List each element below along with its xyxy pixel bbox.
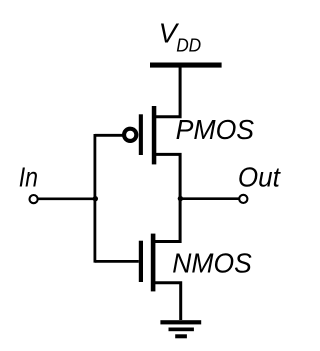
PMOS gate bubble — [124, 129, 136, 141]
wire Out junction to terminal — [180, 197, 239, 200]
node Out junction — [178, 196, 183, 201]
NMOS gate bar — [139, 241, 143, 282]
wire NMOS drain up to Out node — [154, 198, 180, 242]
PMOS gate bar — [139, 114, 143, 155]
PMOS channel bar — [152, 106, 157, 164]
svg-text:DD: DD — [176, 36, 201, 56]
wire PMOS gate to bus — [95, 134, 125, 137]
Out terminal circle — [239, 195, 247, 203]
node In junction — [93, 196, 98, 201]
svg-text:PMOS: PMOS — [176, 114, 255, 145]
svg-text:NMOS: NMOS — [172, 247, 252, 278]
VDD power rail bar — [150, 63, 222, 68]
wire NMOS gate to bus — [95, 260, 139, 263]
label VDD — [159, 18, 202, 56]
NMOS channel bar — [151, 234, 156, 292]
wire In terminal to bus — [38, 197, 96, 200]
wire PMOS source down to Out node — [154, 154, 180, 199]
wire NMOS source to ground — [154, 283, 181, 320]
ground — [160, 320, 201, 338]
In terminal circle — [29, 195, 37, 203]
svg-text:In: In — [19, 160, 38, 192]
svg-text:Out: Out — [238, 162, 281, 193]
wire VDD to PMOS drain — [155, 67, 180, 117]
wire gate bus vertical — [94, 134, 97, 263]
